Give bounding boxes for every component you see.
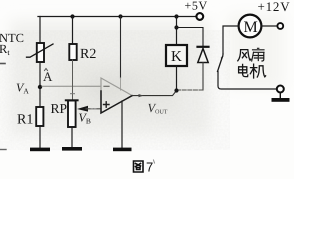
relay contact switch blade <box>222 54 224 58</box>
svg-text:R2: R2 <box>80 47 96 62</box>
wire op-amp V- pin to ground <box>121 101 123 148</box>
resistor R1 body <box>36 107 43 126</box>
caption 图7 (figure 7) hand-drawn glyph <box>134 161 144 172</box>
wire diode bottom to coil bottom <box>177 89 204 91</box>
wire RP to ground <box>71 127 73 147</box>
scan artifact left edge dash <box>0 63 5 65</box>
potentiometer RP body <box>68 101 76 128</box>
thermistor NTC Rt diagonal strike <box>27 44 54 57</box>
potentiometer RP wiper arrow <box>77 106 88 112</box>
wire NTC to node A <box>39 62 41 107</box>
wire R2 top lead <box>72 17 74 45</box>
motor M circle <box>239 15 262 38</box>
relay coil K box <box>166 45 187 66</box>
svg-text:M: M <box>244 19 258 36</box>
+5V terminal circle <box>196 13 203 20</box>
wire motor left lead to switch <box>223 26 239 54</box>
ground below R1 <box>30 148 50 152</box>
wire wiper to op-amp non-inverting input <box>86 108 101 110</box>
junction dot relay/diode top <box>174 25 178 29</box>
wire top rail +5V <box>38 16 197 18</box>
thermistor NTC Rt body <box>37 43 44 62</box>
resistor R2 body <box>69 44 76 60</box>
chassis terminal circle bottom right <box>277 86 284 93</box>
wire R2 to RP <box>72 60 74 101</box>
scan artifact speck near wiper <box>91 108 96 110</box>
op-amp plus input mark <box>104 102 110 107</box>
op-amp minus input mark <box>104 85 109 87</box>
wire op-amp output <box>132 91 177 96</box>
ground below op-amp <box>113 148 132 152</box>
wire diode anode down <box>202 63 204 91</box>
wire R1 to ground <box>39 126 41 148</box>
scan artifact left edge dash lower <box>0 149 6 151</box>
+12V terminal circle <box>277 23 283 29</box>
junction dot rail/op-amp supply <box>118 14 122 18</box>
wire K coil bottom <box>176 66 178 91</box>
wire motor right lead <box>261 25 277 27</box>
label 电机 (motor) hand-drawn glyphs <box>239 64 248 76</box>
svg-text:+12V: +12V <box>258 0 291 14</box>
junction dot rail/relay branch <box>174 14 178 18</box>
wire relay branch from rail <box>176 17 178 46</box>
svg-text:R1: R1 <box>17 113 33 128</box>
svg-text:A: A <box>43 69 53 84</box>
wire to diode cathode <box>177 28 204 47</box>
wire NTC top lead <box>39 17 41 44</box>
svg-text:RP: RP <box>51 101 68 116</box>
output arrowhead <box>139 94 144 97</box>
node A junction dot <box>38 85 42 89</box>
svg-text:7: 7 <box>146 160 153 175</box>
diode D1 cathode bar <box>198 46 209 48</box>
svg-text:K: K <box>171 49 182 65</box>
wire node A to op-amp inverting input <box>42 85 101 87</box>
junction dot coil bottom / output <box>174 88 178 92</box>
chassis terminal stem <box>279 93 281 99</box>
label 风扇 (fan) hand-drawn glyphs <box>238 50 251 61</box>
scan artifact tick after caption <box>154 160 155 163</box>
wire switch bottom lead <box>218 72 276 90</box>
wire op-amp V+ supply pin <box>120 17 122 79</box>
svg-text:+5V: +5V <box>185 0 208 13</box>
chassis terminal bar <box>272 98 290 102</box>
op-amp U1 triangle <box>101 78 132 113</box>
ground below RP <box>62 147 82 151</box>
junction dot rail/R2 <box>70 14 74 18</box>
diode D1 triangle <box>198 49 208 63</box>
